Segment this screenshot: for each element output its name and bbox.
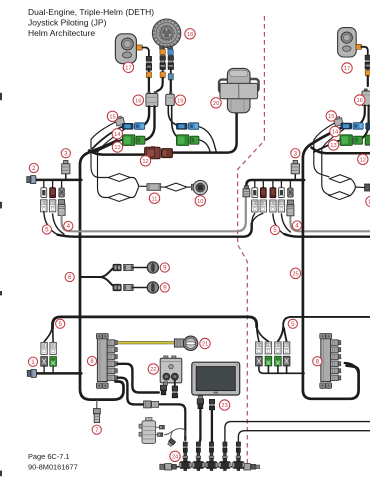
wire: Y16 legs to CAN pairs [143,107,155,140]
callout label 15 [326,111,336,121]
orange connector under helm 18 [160,49,165,55]
twisted pair C (diamond) [165,183,187,191]
callout label 15 [107,111,117,121]
helm boundary dashed line [238,16,265,464]
helm2 lower white connector c2 [265,342,271,354]
callout label 5 [42,225,51,234]
wire: lower link helm2-right [278,317,370,341]
svg-text:1: 1 [31,359,35,366]
helm2 lower grayX connector c4 [283,356,290,366]
svg-text:Dual-Engine, Triple-Helm (DETH: Dual-Engine, Triple-Helm (DETH) [28,7,154,17]
callout label 20 [211,98,221,108]
svg-text:22: 22 [150,367,156,373]
wire: CAN left-halves wires to main bundle [93,127,123,149]
wire: thin lead to twisted pair B [98,130,125,198]
Y-harness 19 [166,92,175,106]
wire: pad 17 helm2 cable [361,47,368,55]
white connector col B [49,200,55,212]
small lead connector B [158,433,163,437]
joystick pad 17 helm1 [115,34,136,64]
CAN green pair 13 left-set [123,135,145,146]
bank top connector col B maroon [50,188,56,198]
callout label 5 [288,319,297,328]
callout label 7 [92,425,101,434]
helm2 lower white connector c1 [256,342,262,354]
callout label 17 [342,63,352,73]
wire: helm cable A S-curve into Y16 [155,78,162,94]
helm2 CAN green pair 13 [340,135,362,146]
Y-harness 16 [146,91,158,106]
straight connector under display (tee3 cable) [209,399,214,409]
svg-text:6: 6 [68,274,72,281]
callout label 14 [330,126,340,136]
callout label 5 [56,319,65,328]
accessory lead connectors lower [113,284,121,291]
wire: block low lug to inline pair and NMEA tee 1 [118,378,144,405]
callout label 4 [292,221,301,230]
wire: lower link fans helm1 [44,326,53,342]
svg-text:23: 23 [221,403,227,409]
callout label 3 [61,149,70,158]
callout label 1 [28,357,37,366]
wire: lead to tee1 drop [164,429,185,436]
inline connector helm cable B [168,56,173,70]
callout label 25 [290,268,300,278]
wire: connector 11 to twisted pair C [161,186,165,188]
wire: helm2 lower bank drops + battery bus [259,366,304,373]
wire: gray steering link helm2-right (item 4) [290,216,370,231]
connector 1 [27,369,36,377]
connector 3 [62,160,70,173]
callout label 19 [175,95,185,105]
wire: lower power link helm1-helm2 [53,317,257,328]
bank top connector col C [59,188,64,197]
wire: helm2 block lug jumper [345,363,359,373]
orange band connector helm2 [365,70,370,76]
svg-text:9: 9 [163,285,167,292]
callout label 9 [160,263,169,272]
svg-text:18: 18 [187,32,193,38]
helm2 item 4 gray-cable connector [287,200,294,216]
wire: bank stub drops [44,180,62,188]
wire to component 9 lower [133,287,147,289]
helm2 twisted pair A [330,175,351,183]
wire: helm2 bank stubs [255,180,291,188]
NMEA tee connector 3 [205,442,217,471]
svg-text:11: 11 [152,196,158,202]
wire: display cables to NMEA tees [199,409,200,443]
callout label 17 [123,62,133,72]
connector 2 [27,176,36,184]
svg-text:16: 16 [135,98,141,104]
helm2 bank top connector col3 maroon [270,188,276,198]
helm2 lower white connector c4 [283,342,289,354]
svg-text:Joystick Piloting (JP): Joystick Piloting (JP) [28,18,107,28]
helm2 bank top connector col4 [279,188,285,198]
svg-text:12: 12 [360,157,366,163]
elbow connector under display (tee2 cable) [197,396,203,409]
CAN blue pair right-set [177,123,199,130]
svg-text:12: 12 [142,159,148,165]
wire: black link helm1-helm2 (item 5) main run [58,224,252,237]
svg-text:2: 2 [32,165,36,172]
svg-text:8: 8 [90,358,94,365]
svg-text:8: 8 [316,359,320,366]
helm2 lower green connector c2 [265,356,272,366]
callout label 8 [87,356,96,365]
wire: tee5 drop to second station [238,431,370,442]
wire: pad 17 cable elbow [142,48,149,57]
helm2 connector 15 [333,116,343,126]
wire: Y19 legs to CAN pairs [168,106,180,140]
helm2 twisted pair B [329,192,350,200]
helm2 white connector col1 [252,200,258,212]
svg-text:13: 13 [330,143,336,149]
wire: helm1 horizontal data bus y180 [36,179,82,182]
helm2 CAN blue pair 14 [341,123,363,130]
page edge scan marks [0,93,2,476]
wire: twisted pairs merge into connector 11 [130,178,147,187]
svg-text:13: 13 [114,145,120,151]
connector 7 [94,409,101,423]
callout label 10 [366,196,370,206]
drop connector from module 22 [174,380,176,386]
callout label 8 [313,357,322,366]
helm2 lower white connector c3 [275,342,281,354]
callout label 13 [112,142,122,152]
helm2 bank top connector col5 [288,188,293,197]
wire: twisted pair C to connector 10 [187,186,193,188]
svg-text:5: 5 [58,321,62,328]
wire: lower bank drops to battery bus [44,366,53,373]
callout label 14 [112,129,122,139]
wire: black link helm2-right (item 5) [273,214,291,234]
svg-text:Page 6C-7.1: Page 6C-7.1 [28,452,70,461]
callout label 22 [148,364,158,374]
helm2 next-set blue connector at edge [366,123,370,129]
component 9 lower (CAN terminator) [147,282,158,293]
callout label 12 [358,154,368,164]
wire: junction box leads [156,427,160,434]
junction module 22 [160,356,182,383]
wire: lower link fans helm2 [257,326,269,341]
wire: helm cable B into Y19 [170,80,172,94]
wire: Y16 helm2 legs to CAN connectors [358,106,369,139]
helm2 bank top connector col2 maroon [260,188,266,198]
elbow connector into module 22 [160,382,167,395]
svg-text:10: 10 [197,199,203,205]
svg-text:25: 25 [292,271,298,277]
wire: battery bus helm1 [37,372,82,375]
wire: helm2 CAN left-half leads [312,127,345,153]
svg-text:15: 15 [109,114,115,120]
blue band helm cable B [168,73,173,80]
connector 3 helm2 [291,160,299,173]
svg-text:17: 17 [125,65,131,71]
callout label 11 [149,193,159,203]
orange band on pad 17 cable [146,72,151,78]
NMEA tee connector 2 [192,442,204,471]
connector 15 [115,116,125,126]
svg-text:9: 9 [163,265,167,272]
callout label 18 [185,29,195,39]
CAN blue pair 14 left-set [123,123,145,130]
blue connector under helm 18 [168,49,173,55]
helm2 white connector col2 [260,200,266,212]
wire: helm1 main harness vertical with bottom loop to terminal block [80,141,124,400]
white connector col A [41,200,47,212]
svg-text:4: 4 [295,223,299,230]
helm1 lower white connector B [50,342,56,354]
wire: fuse feed (yellow) [118,341,175,344]
inline connector pair low [144,401,159,408]
wire: CAN right-halves drop wires to junction [199,127,217,153]
helm1 lower grayX connector [41,357,48,367]
svg-text:5: 5 [45,227,49,234]
inline connector helm cable A [160,56,165,70]
svg-text:5: 5 [291,321,295,328]
wire: black link helm1-helm2 (item 5) fan left [44,212,64,235]
svg-text:20: 20 [213,101,219,107]
junction box (weather cap block) [139,418,156,444]
svg-text:7: 7 [95,427,99,434]
helm2 lower grayX connector c1 [256,356,263,366]
callout label 2 [29,163,38,172]
NMEA tee connector 1 [179,442,191,471]
callout label 24 [170,451,180,461]
orange band helm cable A [160,72,165,78]
wire: gray steering link helm1-helm2 (item 4) [62,197,246,232]
backbone terminator right [244,464,260,470]
callout label 6 [65,272,74,281]
svg-text:5: 5 [273,227,277,234]
svg-text:17: 17 [344,66,350,72]
Y-harness 16 helm2 (clipped at edge) [362,89,370,106]
dangling connector (rotated) [171,431,173,438]
callout label 23 [219,400,229,410]
svg-text:3: 3 [64,150,68,157]
svg-text:21: 21 [202,342,208,348]
helm1 lower green connector [50,357,57,367]
helm unit 18 [152,19,180,49]
helm1 lower white connector A [41,342,47,354]
callout label 4 [64,221,73,230]
svg-text:14: 14 [114,132,120,138]
callout label 12 [140,156,150,166]
wire: branch 6 fork [81,269,112,286]
wire: helm2 twisted pairs join to connector 10 stub [350,179,365,196]
CAN green pair right-set [177,135,199,146]
connector 12 brown pair [145,146,173,159]
callout label 13 [328,140,338,150]
component 9 upper (CAN terminator) [147,262,158,273]
wire: connector 3 stem [65,174,67,180]
wire: tee4 drop to second station [225,422,370,442]
svg-text:24: 24 [172,454,178,460]
helm2 connector 10 stub at edge [365,184,370,191]
wire: helm2 horizontal data bus y180 [246,180,304,186]
connector 10 round [191,180,207,194]
callout label 16 [355,95,365,105]
wire: helm2 thin lead to twisted pair A [314,123,336,177]
terminal block 8 helm1 [96,334,117,389]
inline connector on helm2 pad cable [365,55,370,69]
svg-text:Helm Architecture: Helm Architecture [28,28,95,38]
inline connector on pad 17 cable [146,56,151,70]
item 4 gray-cable connector [58,200,65,216]
module 20 (autopilot CCM) [219,68,259,112]
svg-text:3: 3 [294,150,298,157]
wire: connector 15 thin lead to twisted pair A [91,122,117,178]
wire: helm2 main harness vertical with bottom loop [303,129,359,399]
svg-text:4: 4 [67,223,71,230]
wire: block to junction module 22 [118,364,159,393]
twisted pair B (diamond) [108,194,130,202]
svg-text:14: 14 [332,130,338,136]
display 23 (VesselView) [192,362,240,395]
wire to component 9 upper [133,267,147,269]
callout label 10 [195,196,205,206]
small lead connector A [159,425,164,429]
connector 11 inline [147,184,161,191]
wire: connector 7 stem [96,400,98,409]
wire: connector 3 helm2 stem [294,174,296,180]
helm2 bank top connector col1 [252,188,258,198]
helm2 white connector col4 [278,200,284,212]
backbone terminator left [160,464,177,470]
svg-text:16: 16 [357,98,363,104]
callout label 21 [200,338,210,348]
svg-text:19: 19 [177,98,183,104]
svg-text:90-8M0161677: 90-8M0161677 [28,462,78,471]
NMEA tee connector 5 [232,442,244,471]
callout label 16 [133,95,143,105]
orange connector at pad 17 helm2 [356,44,362,49]
twisted pair A (diamond) [108,174,130,182]
NMEA tee connector 4 [219,442,231,471]
callout label 3 [291,149,300,158]
bank top connector col A [41,188,47,198]
wire: helm2 run toward its connector 12 (off right edge) [312,148,370,154]
wire: module 20 cable down to connector 12 [173,113,237,153]
wire: helm1 run to connector 12 [89,151,144,155]
wire: item5 fan right into helm2 bank [252,214,263,226]
accessory lead connectors upper [113,264,121,271]
helm2 next-set green connector at edge [365,135,370,145]
callout label 9 [160,283,169,292]
helm2 white connector col3 [270,200,276,212]
helm2 bank end connector (gray link) [243,186,250,197]
fuse holder 21 [174,336,197,350]
helm2 lower green connector c3 [275,356,282,366]
wire: helm2 thin lead to twisted pair B [322,130,344,195]
terminal block 8 helm2 [320,334,341,389]
orange connector at pad 17 [137,45,143,50]
joystick pad 17 helm2 [338,28,357,57]
svg-text:15: 15 [328,114,334,120]
callout label 5 [270,225,279,234]
NMEA backbone [167,466,250,468]
